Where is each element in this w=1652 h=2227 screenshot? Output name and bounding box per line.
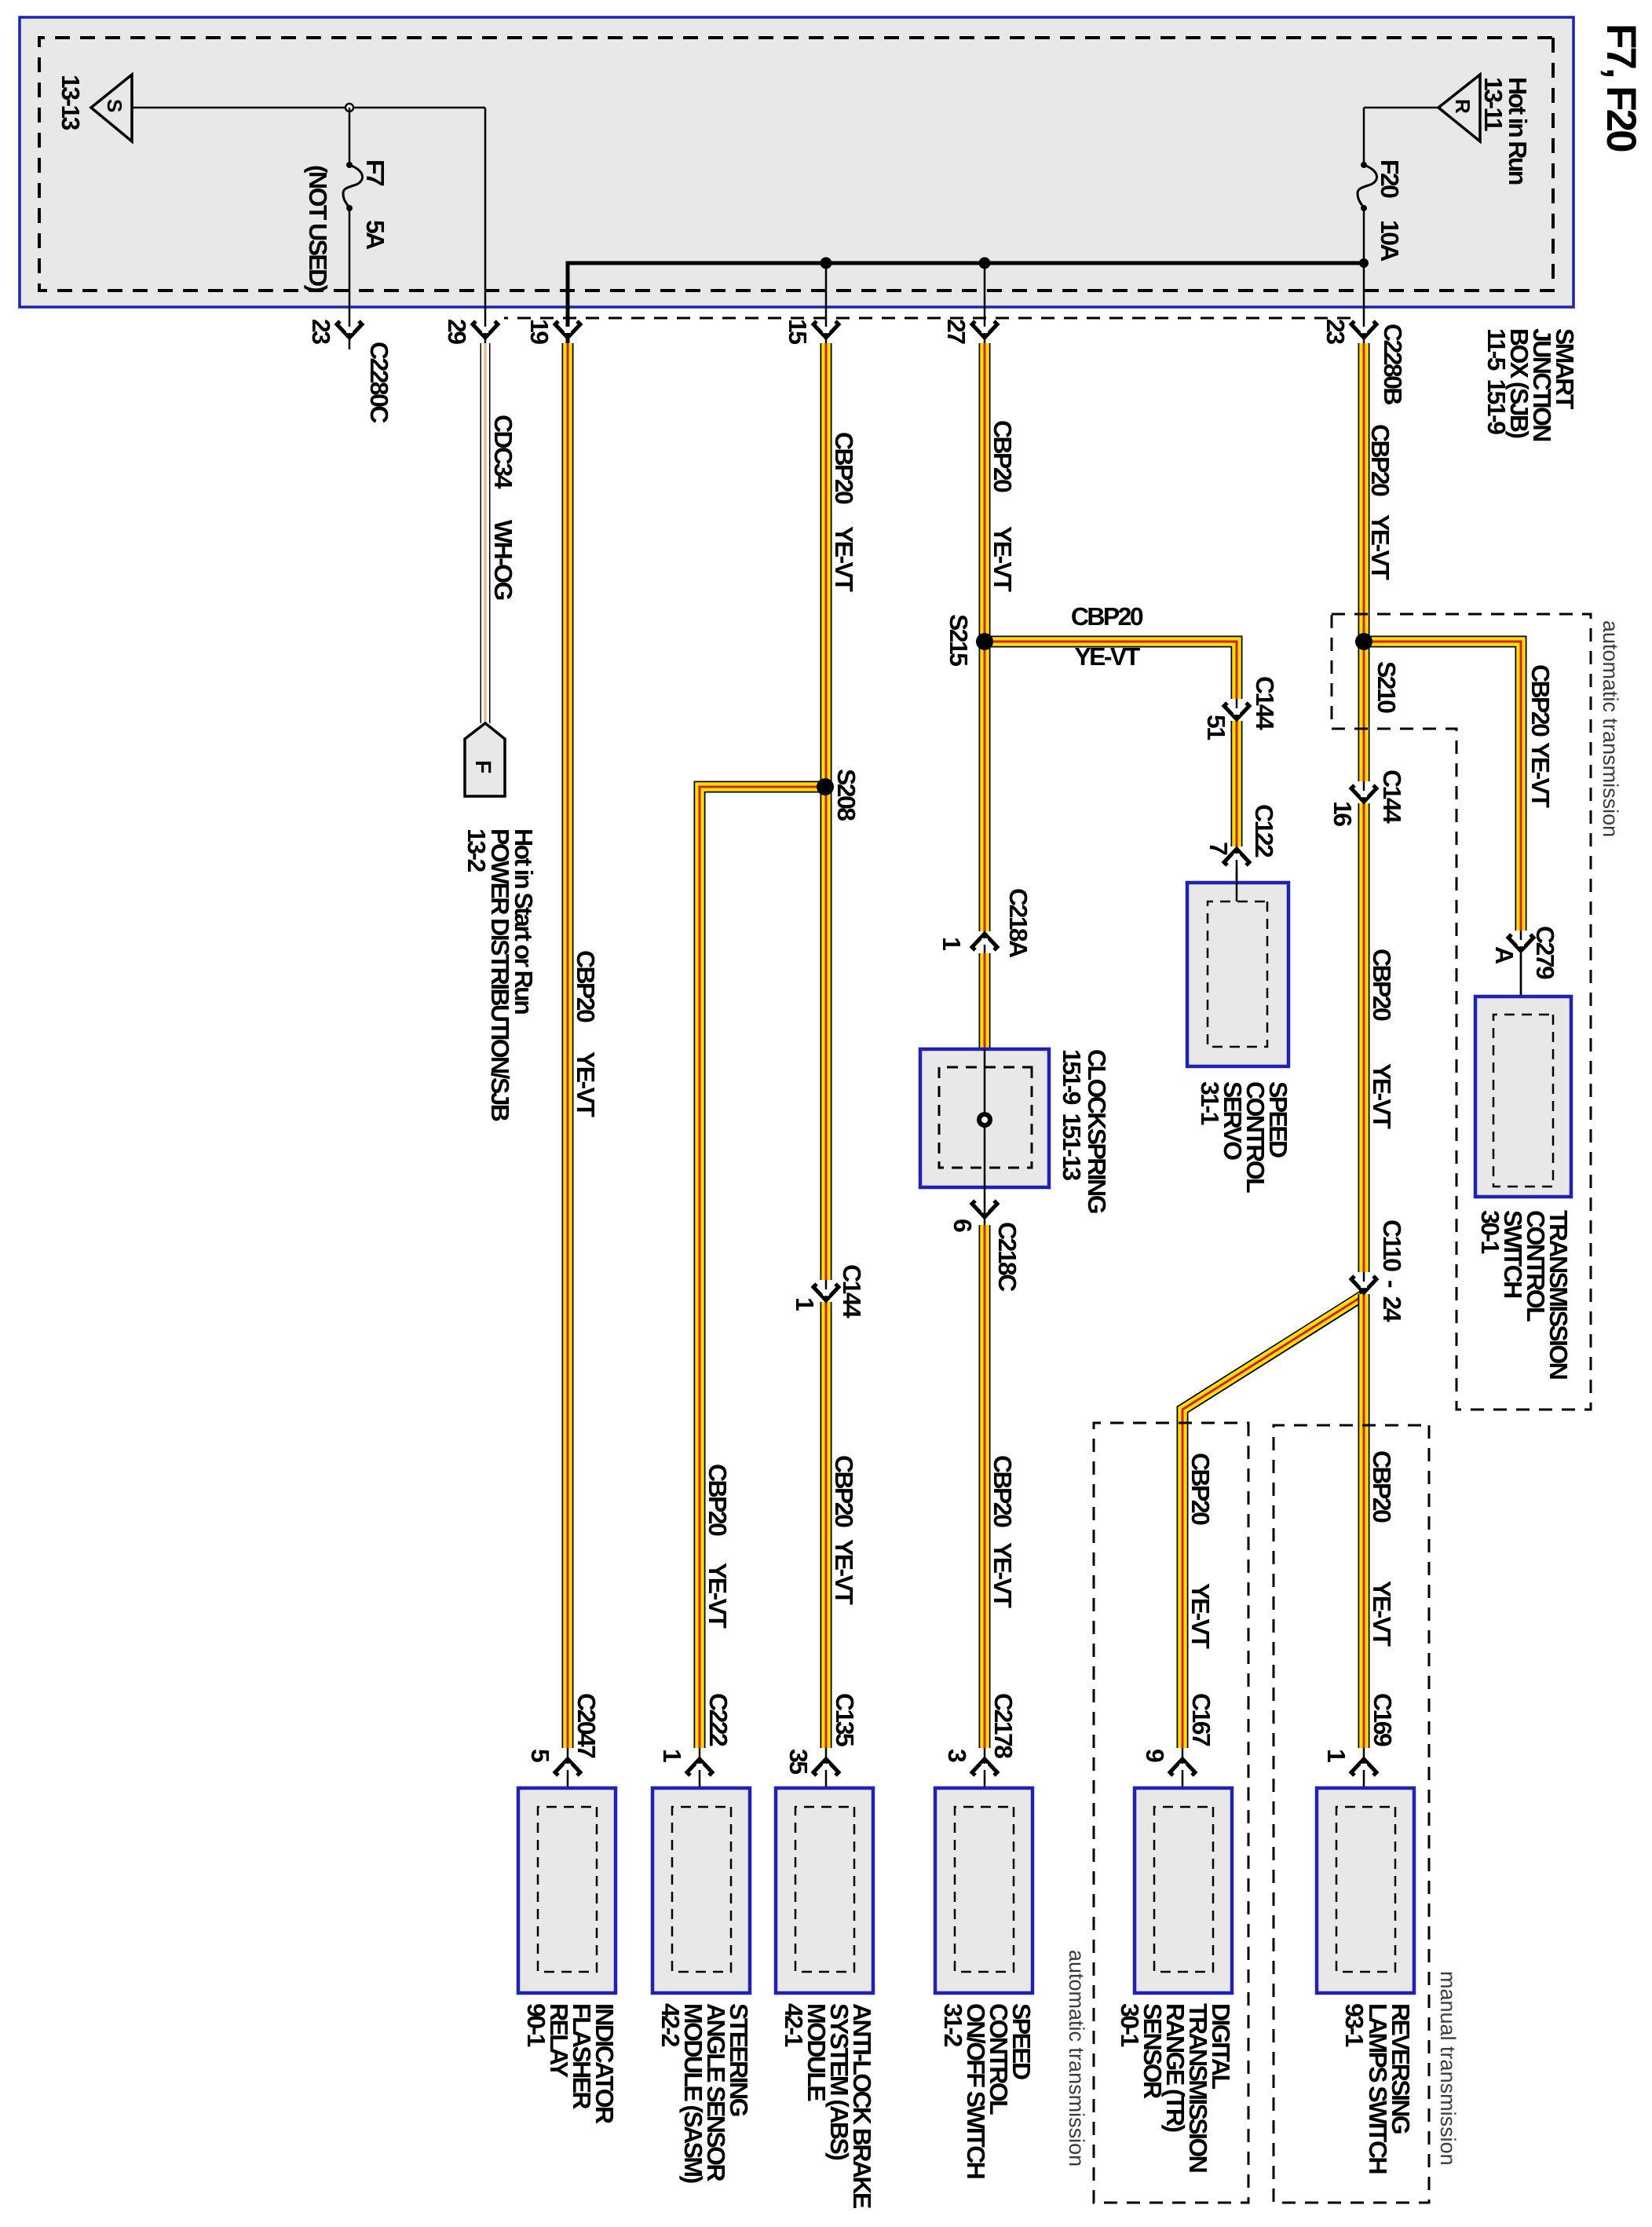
splice S210 xyxy=(1355,633,1401,713)
svg-text:1: 1 xyxy=(658,1749,686,1762)
svg-text:C218A: C218A xyxy=(1004,888,1032,958)
svg-text:YE-VT: YE-VT xyxy=(704,1563,732,1629)
svg-text:YE-VT: YE-VT xyxy=(1368,1063,1396,1129)
indicator flasher relay box xyxy=(518,1693,619,2124)
clockspring box xyxy=(920,1049,1111,1225)
wire label CBP20 YE-VT segment pin27 xyxy=(989,420,1017,592)
svg-text:1: 1 xyxy=(791,1297,819,1311)
svg-text:CBP20: CBP20 xyxy=(989,1455,1017,1527)
pin 29 connector xyxy=(443,319,498,344)
svg-text:35: 35 xyxy=(784,1749,813,1774)
svg-text:23: 23 xyxy=(307,319,335,344)
pin 23 connector C2280B xyxy=(1321,319,1407,404)
connector 6 C218C xyxy=(948,1201,1022,1292)
svg-text:CBP20: CBP20 xyxy=(572,950,600,1022)
svg-text:11-5 151-9: 11-5 151-9 xyxy=(1482,328,1511,434)
svg-text:30-1: 30-1 xyxy=(1476,1210,1504,1253)
connector A C279 xyxy=(1490,926,1559,1015)
svg-text:CBP20: CBP20 xyxy=(1526,664,1555,737)
connector 51 C144 xyxy=(1202,676,1279,740)
svg-text:YE-VT: YE-VT xyxy=(989,1542,1017,1608)
svg-text:S: S xyxy=(103,99,126,112)
svg-text:51: 51 xyxy=(1202,715,1230,740)
svg-text:30-1: 30-1 xyxy=(1116,2003,1144,2046)
wire CBP20 YE-VT pin23 to reversing lamps switch xyxy=(1364,343,1521,1748)
svg-text:YE-VT: YE-VT xyxy=(830,526,858,592)
svg-text:1: 1 xyxy=(937,937,966,950)
svg-text:F7: F7 xyxy=(361,159,389,186)
transmission control switch box xyxy=(1475,954,1573,1379)
wire label CDC34 WH-OG xyxy=(489,415,517,599)
svg-text:S215: S215 xyxy=(945,614,973,666)
svg-text:3: 3 xyxy=(943,1749,971,1762)
label SMART JUNCTION BOX (SJB) xyxy=(1482,328,1579,441)
dashed box manual transmission xyxy=(1274,1425,1460,2203)
svg-text:151-9 151-13: 151-9 151-13 xyxy=(1058,1049,1086,1180)
svg-text:15: 15 xyxy=(784,319,812,344)
wire label CBP20 YE-VT S215 branch (vertical) xyxy=(1071,602,1143,671)
svg-text:YE-VT: YE-VT xyxy=(1526,742,1555,808)
svg-text:F7, F20: F7, F20 xyxy=(1598,24,1644,152)
svg-text:CBP20: CBP20 xyxy=(989,420,1017,492)
svg-text:C144: C144 xyxy=(1251,676,1279,730)
SJB boundary dashed line xyxy=(504,317,1350,320)
wire label CBP20 YE-VT segment pin19 xyxy=(572,950,600,1117)
svg-text:42-2: 42-2 xyxy=(656,2003,685,2046)
svg-text:F: F xyxy=(471,760,495,773)
power feed R (Hot in Run) xyxy=(1438,75,1532,185)
splice S208 xyxy=(817,769,861,821)
fuse F7 5A (NOT USED) xyxy=(304,159,389,293)
svg-text:CBP20: CBP20 xyxy=(830,432,858,504)
svg-text:C2047: C2047 xyxy=(572,1693,601,1758)
svg-text:C2178: C2178 xyxy=(989,1693,1018,1758)
speed control on/off switch box xyxy=(935,1693,1036,2178)
pin 23 connector C2280C xyxy=(307,319,393,423)
svg-text:C218C: C218C xyxy=(993,1222,1022,1292)
junction dot xyxy=(979,258,991,269)
svg-text:CLOCKSPRING: CLOCKSPRING xyxy=(1083,1049,1111,1213)
wire label CBP20 YE-VT segment speed control xyxy=(989,1455,1017,1608)
svg-text:13-2: 13-2 xyxy=(462,828,491,872)
wire label CBP20 YE-VT segment ABS xyxy=(830,1455,858,1605)
svg-text:16: 16 xyxy=(1329,801,1357,826)
digital transmission range TR sensor box xyxy=(1116,1693,1235,2172)
svg-text:23: 23 xyxy=(1321,319,1350,344)
svg-text:automatic transmission: automatic transmission xyxy=(1065,1950,1088,2167)
wire CBP20 YE-VT pin19 to flasher relay xyxy=(562,343,574,1748)
svg-text:1: 1 xyxy=(1322,1749,1350,1762)
svg-text:R: R xyxy=(1451,99,1475,114)
svg-text:6: 6 xyxy=(948,1219,977,1232)
svg-text:CBP20: CBP20 xyxy=(1186,1453,1215,1525)
svg-text:C2280C: C2280C xyxy=(365,342,393,423)
svg-text:31-1: 31-1 xyxy=(1196,1081,1224,1124)
svg-text:C222: C222 xyxy=(704,1693,733,1746)
reversing lamps switch box xyxy=(1317,1693,1415,2173)
svg-text:YE-VT: YE-VT xyxy=(1368,1581,1396,1647)
connector 7 C122 xyxy=(1204,804,1278,901)
svg-text:CDC34: CDC34 xyxy=(489,415,517,489)
pin 15 connector xyxy=(784,319,839,344)
svg-text:13-13: 13-13 xyxy=(57,75,85,130)
wire label CBP20 YE-VT S210 branch xyxy=(1526,664,1555,808)
pin 27 connector xyxy=(942,319,997,344)
node junction ring xyxy=(345,104,353,112)
wire F7 branch xyxy=(349,108,351,349)
wire label CBP20 YE-VT segment pin15 xyxy=(830,432,858,592)
svg-text:5A: 5A xyxy=(361,220,389,250)
svg-text:CBP20: CBP20 xyxy=(1368,949,1396,1021)
svg-text:YE-VT: YE-VT xyxy=(1074,642,1140,671)
svg-text:YE-VT: YE-VT xyxy=(830,1539,858,1605)
svg-text:(NOT USED): (NOT USED) xyxy=(304,165,332,293)
bus wire in SJB xyxy=(568,263,1364,343)
splice S215 xyxy=(945,614,993,666)
svg-text:90-1: 90-1 xyxy=(522,2003,550,2046)
wire label CBP20 YE-VT segment SASM xyxy=(704,1464,732,1629)
svg-text:9: 9 xyxy=(1141,1749,1169,1762)
svg-text:7: 7 xyxy=(1204,842,1233,855)
svg-text:S208: S208 xyxy=(832,769,861,821)
anti-lock brake system ABS module box xyxy=(776,1693,876,2209)
connector 16 C144 xyxy=(1329,770,1406,826)
svg-text:CBP20: CBP20 xyxy=(704,1464,732,1536)
steering angle sensor module SASM box xyxy=(652,1693,753,2183)
wire label CBP20 YE-VT segment TR sensor xyxy=(1186,1453,1215,1649)
svg-text:YE-VT: YE-VT xyxy=(1366,514,1394,580)
flag F power distribution xyxy=(462,723,538,1121)
smart junction box SJB band xyxy=(20,17,1573,307)
wire CBP20 YE-VT pin27 to speed control xyxy=(985,343,1237,1748)
wire R feed xyxy=(1364,107,1438,109)
svg-text:CBP20: CBP20 xyxy=(1368,1450,1396,1523)
wire label CBP20 YE-VT segment reversing xyxy=(1368,1450,1396,1647)
junction dot xyxy=(1359,258,1369,268)
dashed box automatic transmission S210/TCS xyxy=(1332,614,1622,1410)
svg-text:C2280B: C2280B xyxy=(1379,324,1407,404)
pin 19 connector xyxy=(525,319,580,344)
connector 1 C144 wire15 xyxy=(791,1264,866,1318)
junction dot xyxy=(821,258,832,269)
svg-text:POWER DISTRIBUTION/SJB: POWER DISTRIBUTION/SJB xyxy=(486,828,514,1121)
svg-text:19: 19 xyxy=(525,319,554,344)
svg-text:C144: C144 xyxy=(838,1264,866,1318)
svg-text:42-1: 42-1 xyxy=(780,2003,808,2046)
svg-text:A: A xyxy=(1490,946,1519,964)
wire CDC34 WH-OG pin29 xyxy=(481,343,491,723)
fuse F20 10A xyxy=(1358,159,1404,261)
svg-text:C279: C279 xyxy=(1531,926,1559,979)
svg-text:CBP20: CBP20 xyxy=(830,1455,858,1527)
wire CBP20 YE-VT diagonal branch to TR sensor xyxy=(1182,1296,1363,1748)
svg-text:C135: C135 xyxy=(831,1693,859,1746)
svg-text:S210: S210 xyxy=(1372,661,1401,713)
svg-text:YE-VT: YE-VT xyxy=(989,526,1017,592)
speed control servo box xyxy=(1187,867,1292,1193)
connector C110 - 24 xyxy=(1351,1220,1406,1322)
svg-text:29: 29 xyxy=(443,319,471,344)
svg-text:C122: C122 xyxy=(1250,804,1278,858)
svg-text:WH-OG: WH-OG xyxy=(489,520,517,599)
svg-text:F20: F20 xyxy=(1376,159,1404,198)
svg-text:CBP20: CBP20 xyxy=(1071,602,1143,631)
svg-text:31-2: 31-2 xyxy=(939,2003,967,2046)
svg-text:27: 27 xyxy=(942,319,970,344)
svg-text:13-11: 13-11 xyxy=(1479,77,1508,131)
svg-text:C110 - 24: C110 - 24 xyxy=(1378,1220,1406,1322)
svg-text:manual transmission: manual transmission xyxy=(1436,1971,1460,2166)
svg-text:93-1: 93-1 xyxy=(1340,2003,1369,2046)
wire label CBP20 YE-VT segment mid xyxy=(1368,949,1396,1129)
svg-text:10A: 10A xyxy=(1376,220,1404,261)
svg-text:C167: C167 xyxy=(1187,1693,1215,1746)
svg-text:5: 5 xyxy=(526,1749,554,1762)
svg-text:YE-VT: YE-VT xyxy=(1186,1583,1215,1649)
power feed S 13-13 xyxy=(57,75,132,141)
svg-text:YE-VT: YE-VT xyxy=(572,1051,600,1117)
wire S feed xyxy=(132,108,485,343)
svg-text:CBP20: CBP20 xyxy=(1366,424,1394,496)
dashed box automatic transmission TR sensor xyxy=(1065,1423,1248,2203)
connector 1 C218A xyxy=(937,888,1032,958)
svg-text:automatic transmission: automatic transmission xyxy=(1599,620,1622,837)
wire CBP20 YE-VT pin15 to ABS xyxy=(700,343,826,1748)
wire label CBP20 YE-VT segment pin23 xyxy=(1366,424,1394,580)
svg-text:C169: C169 xyxy=(1369,1693,1397,1746)
svg-text:C144: C144 xyxy=(1378,770,1406,824)
